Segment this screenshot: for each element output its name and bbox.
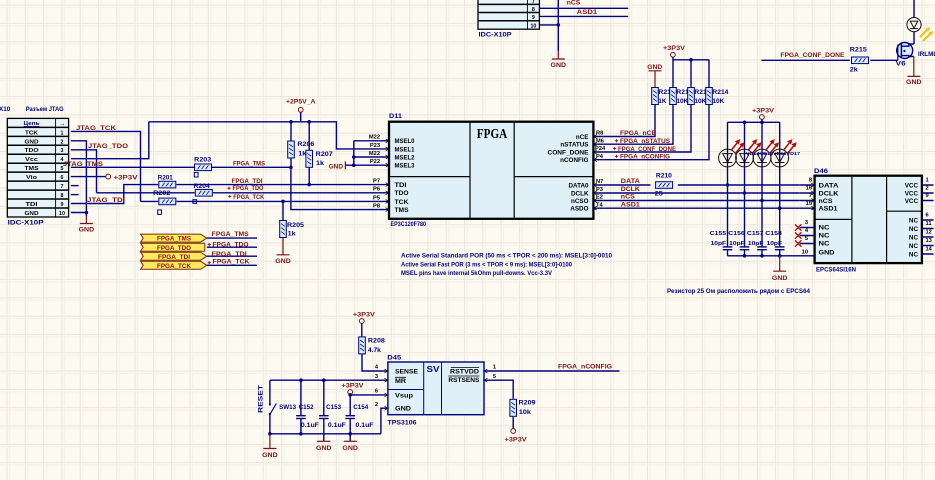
net label anchor crosses bbox=[227, 187, 230, 190]
wire Vcc to +2P5V_A rail bbox=[71, 122, 149, 159]
svg-text:nCONFIG: nCONFIG bbox=[560, 157, 588, 164]
svg-text:3: 3 bbox=[61, 148, 64, 154]
junction bbox=[778, 254, 782, 258]
wire FPGA_TDO line bbox=[97, 192, 379, 194]
capacitor C157 bbox=[747, 231, 767, 250]
wire GND pins 2,10 bbox=[71, 141, 87, 216]
resistor R211 bbox=[652, 88, 667, 105]
svg-text:DCLK: DCLK bbox=[621, 186, 640, 193]
svg-text:VCC: VCC bbox=[905, 190, 919, 197]
svg-text:Vio: Vio bbox=[26, 175, 38, 181]
svg-text:NC: NC bbox=[909, 217, 919, 224]
svg-text:ASD1: ASD1 bbox=[577, 9, 598, 16]
svg-text:FPGA_TMS: FPGA_TMS bbox=[157, 236, 191, 243]
junction bbox=[760, 199, 764, 203]
svg-text:10pF: 10pF bbox=[767, 241, 783, 247]
wire bottom rail bbox=[270, 433, 381, 435]
svg-text:10: 10 bbox=[802, 249, 808, 255]
svg-text:1: 1 bbox=[926, 178, 929, 184]
svg-text:R207: R207 bbox=[316, 151, 334, 158]
wire JTAG_TDO bbox=[71, 150, 97, 193]
svg-text:6: 6 bbox=[375, 389, 378, 395]
junction R205 top bbox=[281, 200, 285, 204]
junction bbox=[85, 211, 89, 215]
wire FPGA_TCK line bbox=[141, 200, 379, 202]
svg-text:GND: GND bbox=[772, 275, 788, 282]
svg-text:nCSO: nCSO bbox=[571, 198, 589, 205]
wire ASD1 bbox=[604, 207, 800, 209]
wire +2P5V_A rail bbox=[149, 122, 379, 149]
EPCS left pin stubs bbox=[800, 185, 815, 244]
svg-text:+3P3V: +3P3V bbox=[663, 45, 686, 52]
FPGA left pin names bbox=[395, 138, 415, 214]
svg-text:RSTVDD: RSTVDD bbox=[450, 368, 480, 375]
svg-text:5: 5 bbox=[493, 374, 496, 380]
wire R215 to gate bbox=[870, 59, 898, 61]
svg-text:R214: R214 bbox=[712, 89, 729, 96]
svg-text:EP3C120F780: EP3C120F780 bbox=[391, 221, 427, 228]
svg-text:MSEL0: MSEL0 bbox=[395, 138, 415, 145]
svg-text:nCS: nCS bbox=[819, 198, 833, 205]
svg-text:P23: P23 bbox=[370, 143, 380, 149]
LED VD17 bbox=[771, 139, 797, 167]
svg-text:1k: 1k bbox=[288, 231, 297, 238]
svg-text:C152: C152 bbox=[299, 404, 314, 411]
svg-text:FPGA: FPGA bbox=[477, 126, 508, 141]
junction bbox=[557, 23, 561, 27]
connector X11 table bbox=[478, 0, 539, 29]
svg-text:Резистор 25 Ом расположить ряд: Резистор 25 Ом расположить рядом с EPCS6… bbox=[667, 288, 811, 295]
svg-text:0.1uF: 0.1uF bbox=[301, 422, 319, 429]
ground (above R211) bbox=[647, 64, 662, 87]
svg-text:FPGA_TDO: FPGA_TDO bbox=[213, 241, 249, 248]
svg-text:R8: R8 bbox=[596, 131, 603, 137]
svg-text:FPGA_TCK: FPGA_TCK bbox=[213, 258, 250, 265]
TPS pin glyphs bbox=[385, 369, 488, 410]
svg-text:15: 15 bbox=[806, 201, 812, 207]
svg-text:NC: NC bbox=[819, 233, 831, 240]
svg-text:P4: P4 bbox=[596, 154, 604, 160]
svg-text:R209: R209 bbox=[519, 399, 537, 406]
svg-text:FPGA_CONF_DONE: FPGA_CONF_DONE bbox=[618, 146, 677, 153]
svg-text:R208: R208 bbox=[368, 338, 386, 345]
junction bbox=[289, 120, 293, 124]
svg-text:0.1uF: 0.1uF bbox=[356, 422, 374, 429]
port FPGA_TMS bbox=[141, 234, 207, 243]
LED VD16 bbox=[753, 139, 779, 167]
ground (below X10) bbox=[79, 216, 95, 234]
wire port TDO bbox=[207, 246, 257, 248]
svg-text:CONF_DONE: CONF_DONE bbox=[548, 149, 589, 156]
capacitor C155 bbox=[710, 231, 733, 250]
svg-text:FPGA_TDI: FPGA_TDI bbox=[158, 254, 190, 261]
svg-text:M6: M6 bbox=[596, 138, 604, 144]
wire cap ground rail bbox=[728, 250, 815, 256]
svg-text:GND: GND bbox=[25, 139, 39, 145]
capacitor C153 bbox=[319, 380, 346, 441]
svg-text:7: 7 bbox=[61, 184, 64, 190]
wire RSTSENS to R209 bbox=[484, 380, 513, 399]
svg-text:nCE: nCE bbox=[576, 134, 589, 141]
svg-text:7: 7 bbox=[809, 193, 812, 199]
svg-text:TDI: TDI bbox=[26, 202, 38, 208]
svg-text:EPCS64SI16N: EPCS64SI16N bbox=[816, 267, 856, 274]
svg-text:C156: C156 bbox=[728, 231, 745, 237]
wire FPGA_nCONFIG out bbox=[484, 370, 620, 372]
stub pin7 bbox=[71, 185, 79, 187]
no-ERC marker pin3 bbox=[795, 224, 801, 230]
svg-text:FPGA_nSTATUS: FPGA_nSTATUS bbox=[620, 138, 671, 145]
FPGA right pin glyphs bbox=[593, 135, 596, 211]
svg-text:Vsup: Vsup bbox=[395, 392, 413, 399]
svg-text:M22: M22 bbox=[369, 151, 380, 157]
svg-text:9: 9 bbox=[532, 15, 535, 21]
svg-text:M22: M22 bbox=[369, 135, 380, 141]
svg-text:SV: SV bbox=[427, 364, 440, 374]
capacitor C154 bbox=[345, 395, 373, 441]
svg-text:D45: D45 bbox=[387, 355, 402, 362]
svg-text:P8: P8 bbox=[373, 204, 380, 210]
junction bbox=[743, 121, 747, 125]
wire port TDI bbox=[207, 255, 257, 257]
junction bbox=[268, 432, 272, 436]
capacitor C152 bbox=[296, 380, 319, 434]
svg-text:TDO: TDO bbox=[25, 148, 40, 154]
wire nCS (pin 8) bbox=[539, 7, 628, 9]
svg-text:DATA0: DATA0 bbox=[568, 182, 589, 189]
wire JTAG_TDI bbox=[71, 185, 379, 204]
svg-text:JTAG_TMS: JTAG_TMS bbox=[63, 161, 104, 168]
svg-text:C155: C155 bbox=[710, 231, 727, 237]
resistor R212 bbox=[670, 88, 689, 105]
svg-text:R210: R210 bbox=[656, 173, 673, 180]
svg-text:+3P3V: +3P3V bbox=[342, 382, 365, 389]
junction bbox=[778, 206, 782, 210]
svg-text:RSTSENS: RSTSENS bbox=[448, 377, 479, 384]
svg-text:1: 1 bbox=[61, 130, 64, 136]
ground (caps) bbox=[772, 256, 788, 282]
resistor R214 bbox=[706, 88, 725, 105]
svg-text:ASDO: ASDO bbox=[570, 206, 588, 213]
svg-text:FPGA_TCK: FPGA_TCK bbox=[233, 194, 264, 201]
wire MSEL0 bbox=[354, 141, 379, 165]
svg-text:FPGA_TDO: FPGA_TDO bbox=[157, 245, 191, 252]
svg-text:GND: GND bbox=[316, 445, 332, 452]
junction bbox=[307, 120, 311, 124]
wire R208 to SENSE bbox=[362, 354, 388, 371]
svg-text:GND: GND bbox=[551, 62, 567, 69]
svg-text:6: 6 bbox=[61, 175, 64, 181]
junction bbox=[299, 432, 303, 436]
wire FPGA_nCONFIG bbox=[604, 105, 709, 160]
resistor R210 bbox=[655, 173, 673, 198]
svg-text:10K: 10K bbox=[694, 98, 706, 105]
wire FPGA_nSTATUS bbox=[604, 105, 673, 144]
junction bbox=[689, 58, 693, 62]
svg-text:Active Serial Fast POR (3 ms <: Active Serial Fast POR (3 ms < TPOR < 9 … bbox=[401, 261, 573, 268]
wire port TCK bbox=[207, 264, 257, 266]
wire LED rail bbox=[728, 122, 780, 247]
svg-text:R204: R204 bbox=[194, 183, 211, 190]
svg-text:→: → bbox=[59, 121, 66, 128]
svg-text:FPGA_TDI: FPGA_TDI bbox=[212, 251, 247, 258]
wire GND pin2 bbox=[381, 408, 388, 434]
resistor R201 bbox=[158, 174, 176, 188]
wire MR bbox=[270, 379, 388, 381]
svg-text:nCS: nCS bbox=[567, 0, 581, 7]
svg-text:P7: P7 bbox=[373, 179, 380, 185]
svg-text:P22: P22 bbox=[370, 159, 380, 165]
svg-text:MR: MR bbox=[395, 378, 407, 385]
svg-text:nCS: nCS bbox=[621, 194, 636, 201]
wire port TMS bbox=[207, 237, 257, 239]
chip TPS3106 D45 body bbox=[388, 362, 484, 415]
junction bbox=[352, 155, 356, 159]
svg-text:DCLK: DCLK bbox=[819, 190, 840, 197]
svg-text:Разъем JTAG: Разъем JTAG bbox=[26, 106, 64, 113]
no-ERC marker pin5 bbox=[795, 240, 801, 246]
svg-text:VD14VD15VD16VD17: VD14VD15VD16VD17 bbox=[746, 151, 800, 157]
svg-text:R215: R215 bbox=[850, 46, 868, 53]
svg-text:P3: P3 bbox=[596, 187, 603, 193]
svg-text:2k: 2k bbox=[850, 66, 859, 73]
svg-text:NC: NC bbox=[819, 225, 831, 232]
svg-text:VCC: VCC bbox=[905, 198, 919, 205]
svg-text:10pF: 10pF bbox=[748, 241, 764, 247]
FPGA right pin numbers bbox=[595, 131, 606, 209]
svg-text:10pF: 10pF bbox=[729, 241, 745, 247]
svg-text:10K: 10K bbox=[712, 98, 724, 105]
junction bbox=[348, 393, 352, 397]
wire DATA bbox=[604, 184, 800, 186]
junction bbox=[289, 166, 293, 170]
svg-text:FPGA_nCONFIG: FPGA_nCONFIG bbox=[620, 154, 670, 161]
svg-text:10: 10 bbox=[59, 211, 65, 217]
connector X10 table bbox=[7, 118, 68, 217]
svg-text:RESET: RESET bbox=[258, 385, 265, 413]
svg-text:D11: D11 bbox=[389, 113, 403, 120]
svg-text:NC: NC bbox=[819, 241, 831, 248]
svg-text:NC: NC bbox=[909, 234, 919, 241]
svg-text:7: 7 bbox=[532, 0, 535, 5]
svg-text:GND: GND bbox=[395, 406, 412, 413]
svg-text:FPGA_TDO: FPGA_TDO bbox=[233, 185, 264, 192]
TPS pin names bbox=[395, 368, 480, 413]
svg-text:C154: C154 bbox=[353, 404, 368, 411]
chip EPCS64 D46 body bbox=[815, 176, 922, 263]
svg-text:GND: GND bbox=[647, 64, 662, 71]
capacitor C156 bbox=[728, 231, 749, 250]
wire DCLK bbox=[604, 192, 800, 194]
wire JTAG_TCK bbox=[71, 131, 141, 201]
svg-text:GND: GND bbox=[906, 79, 922, 86]
transistor V6 bbox=[896, 43, 935, 68]
svg-text:11: 11 bbox=[926, 221, 932, 227]
svg-text:2: 2 bbox=[61, 139, 64, 145]
no-ERC marker pin4 bbox=[795, 232, 801, 238]
EPCS left pin glyphs bbox=[811, 183, 814, 210]
svg-text:FPGA_TMS: FPGA_TMS bbox=[212, 231, 250, 238]
svg-text:10: 10 bbox=[530, 23, 536, 29]
svg-text:TDI: TDI bbox=[395, 182, 407, 189]
resistor R202 bbox=[153, 190, 176, 214]
svg-text:8: 8 bbox=[532, 7, 535, 13]
EPCS right pin numbers bbox=[926, 178, 933, 253]
svg-text:MSEL1: MSEL1 bbox=[395, 146, 415, 153]
FPGA left pin glyphs bbox=[386, 139, 389, 212]
junction bbox=[299, 378, 303, 382]
svg-text:TCK: TCK bbox=[25, 130, 39, 136]
svg-text:JTAG_TDI: JTAG_TDI bbox=[87, 197, 125, 204]
wire Vsup bbox=[350, 394, 388, 396]
svg-text:DCLK: DCLK bbox=[571, 190, 589, 197]
port FPGA_TCK bbox=[141, 261, 207, 270]
svg-text:GND: GND bbox=[819, 249, 836, 256]
svg-text:13: 13 bbox=[926, 238, 932, 244]
svg-text:3: 3 bbox=[375, 374, 378, 380]
junction bbox=[760, 254, 764, 258]
svg-text:R206: R206 bbox=[297, 141, 315, 148]
svg-text:8: 8 bbox=[61, 193, 64, 199]
power port +2P5V_A bbox=[286, 99, 316, 122]
svg-text:N7: N7 bbox=[596, 179, 603, 185]
svg-text:8: 8 bbox=[809, 178, 812, 184]
svg-text:9: 9 bbox=[61, 202, 64, 208]
svg-text:C157: C157 bbox=[747, 231, 764, 237]
power port +3P3V (LEDs) bbox=[752, 107, 775, 122]
svg-text:NC: NC bbox=[909, 243, 919, 250]
svg-text:16: 16 bbox=[806, 186, 812, 192]
wire JTAG_TMS bbox=[71, 166, 291, 168]
svg-text:TPS3106: TPS3106 bbox=[388, 420, 418, 427]
svg-text:Active Serial Standard POR (50: Active Serial Standard POR (50 ms < TPOR… bbox=[401, 253, 613, 260]
wire FPGA_CONF_DONE to R215 bbox=[761, 59, 849, 61]
svg-text:10K: 10K bbox=[676, 98, 688, 105]
svg-text:GND: GND bbox=[275, 258, 291, 265]
svg-text:25: 25 bbox=[655, 190, 664, 197]
svg-text:+3P3V: +3P3V bbox=[752, 107, 775, 114]
note text AS config bbox=[401, 253, 613, 278]
resistor R213 bbox=[688, 88, 707, 105]
svg-text:MSEL3: MSEL3 bbox=[395, 163, 415, 170]
svg-text:FPGA_TMS: FPGA_TMS bbox=[233, 161, 266, 168]
power port +3P3V (Vio) bbox=[71, 174, 139, 181]
ground (switch) bbox=[262, 434, 278, 459]
ground (MSEL, sideways) bbox=[329, 161, 346, 170]
svg-text:NC: NC bbox=[909, 226, 919, 233]
svg-text:+2P5V_A: +2P5V_A bbox=[286, 99, 316, 106]
svg-text:2: 2 bbox=[926, 186, 929, 192]
svg-text:V6: V6 bbox=[896, 61, 907, 68]
svg-text:ASD1: ASD1 bbox=[621, 201, 640, 208]
svg-text:NC: NC bbox=[909, 251, 919, 258]
svg-text:DATA: DATA bbox=[819, 182, 840, 189]
svg-text:GND: GND bbox=[25, 211, 39, 217]
capacitor C158 bbox=[765, 231, 784, 250]
svg-text:C153: C153 bbox=[326, 404, 341, 411]
svg-text:JTAG_TCK: JTAG_TCK bbox=[76, 125, 116, 132]
svg-text:FPGA_nCE: FPGA_nCE bbox=[620, 130, 657, 137]
junction bbox=[726, 183, 730, 187]
svg-text:10pF: 10pF bbox=[711, 241, 727, 247]
wire nCS bbox=[604, 200, 800, 202]
svg-text:FPGA_TDI: FPGA_TDI bbox=[232, 178, 263, 185]
power port +3P3V (pullups) bbox=[663, 45, 686, 60]
LED VD15 bbox=[736, 139, 762, 167]
FPGA left pin numbers bbox=[369, 135, 380, 210]
svg-text:P24: P24 bbox=[595, 146, 606, 152]
svg-text:Vcc: Vcc bbox=[25, 157, 39, 163]
svg-text:P6: P6 bbox=[373, 187, 380, 193]
svg-text:2: 2 bbox=[375, 402, 378, 408]
svg-text:0.1uF: 0.1uF bbox=[328, 422, 346, 429]
ground (R205) bbox=[275, 238, 291, 265]
svg-text:+3P3V: +3P3V bbox=[114, 174, 139, 181]
ground (C154) bbox=[342, 441, 358, 452]
svg-text:TCK: TCK bbox=[395, 199, 409, 206]
ground (C153) bbox=[316, 441, 332, 452]
svg-text:GND: GND bbox=[329, 163, 344, 170]
svg-text:R203: R203 bbox=[194, 156, 212, 163]
EPCS right pin stubs bbox=[922, 185, 934, 254]
svg-text:GND: GND bbox=[342, 445, 358, 452]
svg-text:P5: P5 bbox=[373, 195, 380, 201]
wire MSEL2 bbox=[354, 156, 379, 158]
svg-text:12: 12 bbox=[926, 230, 932, 236]
svg-text:T4: T4 bbox=[596, 202, 603, 208]
resistor R209 bbox=[510, 399, 536, 416]
LED VD (conf done) bbox=[907, 0, 933, 44]
wire ASD1 (pin 9) bbox=[539, 15, 628, 17]
TPS pin numbers bbox=[375, 365, 496, 409]
wire +3P3V pullup rail bbox=[673, 60, 709, 87]
svg-text:TMS: TMS bbox=[395, 207, 409, 214]
svg-text:14: 14 bbox=[926, 247, 933, 253]
resistor R205 bbox=[280, 201, 305, 237]
svg-text:GND: GND bbox=[262, 452, 278, 459]
resistor R215 bbox=[850, 46, 869, 73]
port FPGA_TDI bbox=[141, 252, 207, 261]
svg-text:GND: GND bbox=[79, 227, 95, 234]
svg-text:FPGA_CONF_DONE: FPGA_CONF_DONE bbox=[780, 52, 845, 59]
resistor R204 bbox=[193, 183, 212, 203]
stub pin8 bbox=[71, 194, 79, 196]
svg-text:R205: R205 bbox=[287, 222, 305, 229]
EPCS left pin names bbox=[819, 182, 840, 256]
svg-text:nSTATUS: nSTATUS bbox=[560, 142, 588, 149]
svg-text:1K: 1K bbox=[658, 98, 666, 105]
svg-text:MSEL pins have internal 5kOhm: MSEL pins have internal 5kOhm pull-downs… bbox=[401, 270, 553, 277]
wire FPGA_nCE bbox=[604, 105, 655, 137]
junction bbox=[322, 378, 326, 382]
svg-text:9: 9 bbox=[926, 193, 929, 199]
FPGA left pin stubs bbox=[379, 141, 389, 210]
svg-text:TDO: TDO bbox=[395, 190, 409, 197]
svg-text:FPGA_TCK: FPGA_TCK bbox=[157, 263, 191, 270]
port FPGA_TDO bbox=[141, 243, 205, 252]
svg-text:R201: R201 bbox=[158, 174, 173, 181]
wire FPGA_CONF_DONE (pullup) bbox=[604, 105, 691, 152]
power port +3P3V (R208) bbox=[353, 311, 376, 336]
svg-text:1: 1 bbox=[493, 365, 496, 371]
svg-text:TMS: TMS bbox=[25, 166, 39, 172]
svg-text:+3P3V: +3P3V bbox=[353, 311, 376, 318]
svg-text:X10: X10 bbox=[0, 106, 11, 113]
ground (top) bbox=[551, 51, 567, 69]
wire TMS to FPGA pin bbox=[291, 167, 379, 209]
svg-text:6: 6 bbox=[926, 213, 929, 219]
wire MSEL3 / GND bbox=[345, 164, 378, 166]
